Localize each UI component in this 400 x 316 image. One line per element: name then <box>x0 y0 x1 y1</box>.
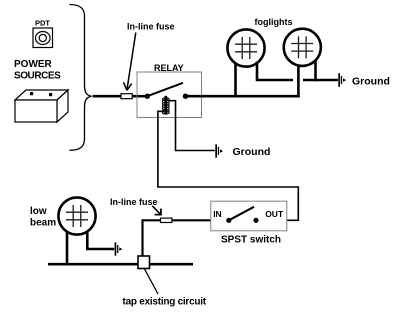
svg-text:In-line fuse: In-line fuse <box>110 197 158 207</box>
relay coil <box>162 95 169 114</box>
svg-text:foglights: foglights <box>255 17 293 27</box>
battery (3D box) <box>15 90 68 122</box>
relay switch arm <box>147 83 183 96</box>
arrow to fuse F1 <box>124 33 136 91</box>
in-line fuse F2 <box>161 218 172 222</box>
wire existing circuit bus <box>48 263 193 266</box>
foglight lamp 2 <box>284 29 321 66</box>
svg-text:low: low <box>30 206 47 217</box>
svg-text:POWER: POWER <box>14 59 53 70</box>
SPST right dot <box>253 218 258 223</box>
wire low beam to ground <box>87 232 114 249</box>
wire coil to SPST switch <box>158 111 298 220</box>
wire tap to fuse F2 <box>143 220 161 256</box>
wire right foglight feed <box>297 65 300 98</box>
SPST switch arm <box>229 207 254 221</box>
brace grouping power sources <box>70 5 92 151</box>
wire lamp2 to ground line <box>314 60 317 81</box>
svg-text:SOURCES: SOURCES <box>14 70 61 81</box>
wire ground line segment <box>303 79 338 82</box>
svg-text:Ground: Ground <box>233 146 271 158</box>
svg-text:IN: IN <box>213 209 222 219</box>
svg-text:tap existing circuit: tap existing circuit <box>123 297 207 308</box>
svg-text:PDT: PDT <box>35 19 50 28</box>
foglight lamp 1 <box>227 29 264 66</box>
wire coil to ground <box>169 101 215 151</box>
relay pin 87 dot <box>183 94 188 99</box>
wire relay output bus <box>186 95 300 98</box>
label low beam <box>30 206 56 228</box>
SPST switch box <box>211 201 287 231</box>
low beam lamp <box>58 197 95 234</box>
wire fuse F2 to SPST <box>172 219 211 221</box>
wire lamp1 to ground line <box>257 62 293 81</box>
relay pin 30 dot <box>145 94 150 99</box>
PDT connector box <box>33 28 53 48</box>
ground symbol (foglights) <box>338 73 346 87</box>
svg-text:SPST switch: SPST switch <box>221 234 281 245</box>
svg-text:OUT: OUT <box>265 209 284 219</box>
label POWER SOURCES <box>14 59 61 81</box>
wire fuse to relay <box>132 95 148 98</box>
wire low beam to existing circuit <box>66 233 69 266</box>
svg-text:In-line fuse: In-line fuse <box>127 22 175 32</box>
svg-text:beam: beam <box>30 217 56 228</box>
arrow to fuse F2 <box>152 206 161 215</box>
ground symbol (relay coil) <box>215 144 223 157</box>
wire battery to fuse <box>93 95 122 98</box>
in-line fuse F1 <box>121 94 132 99</box>
SPST left dot <box>226 218 231 223</box>
tap connector square <box>138 256 150 269</box>
relay box <box>137 72 202 118</box>
svg-text:Ground: Ground <box>352 76 390 88</box>
ground symbol (low beam) <box>115 242 123 255</box>
svg-text:RELAY: RELAY <box>154 63 184 73</box>
pointer line to tap <box>145 269 159 294</box>
wire left foglight feed <box>234 63 237 98</box>
